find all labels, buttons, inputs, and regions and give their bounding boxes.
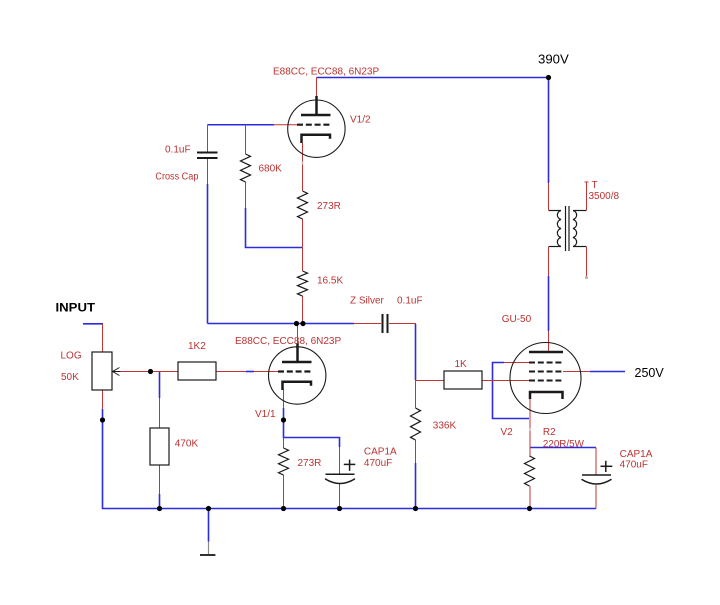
svg-text:0.1uF: 0.1uF [397, 296, 423, 307]
svg-text:1K2: 1K2 [188, 341, 206, 352]
svg-text:V1/1: V1/1 [255, 409, 276, 420]
svg-text:273R: 273R [298, 458, 322, 469]
svg-text:E88CC, ECC88, 6N23P: E88CC, ECC88, 6N23P [235, 336, 341, 347]
svg-text:R2: R2 [543, 427, 556, 438]
svg-text:V2: V2 [501, 427, 514, 438]
svg-text:470K: 470K [175, 439, 199, 450]
svg-text:CAP1A: CAP1A [364, 447, 397, 458]
svg-text:3500/8: 3500/8 [589, 191, 620, 202]
svg-text:390V: 390V [538, 53, 569, 67]
svg-text:GU-50: GU-50 [502, 314, 532, 325]
svg-text:Z Silver: Z Silver [350, 296, 385, 307]
svg-text:470uF: 470uF [364, 458, 392, 469]
svg-text:336K: 336K [433, 421, 457, 432]
svg-text:V1/2: V1/2 [350, 114, 371, 125]
svg-text:16.5K: 16.5K [317, 276, 343, 287]
svg-text:INPUT: INPUT [56, 301, 96, 315]
svg-text:1K: 1K [455, 359, 468, 370]
svg-text:0.1uF: 0.1uF [165, 145, 191, 156]
svg-text:220R/5W: 220R/5W [543, 439, 585, 450]
svg-text:T: T [592, 180, 598, 191]
svg-text:680K: 680K [259, 164, 283, 175]
svg-text:E88CC, ECC88, 6N23P: E88CC, ECC88, 6N23P [273, 67, 379, 78]
svg-text:50K: 50K [61, 372, 79, 383]
svg-text:LOG: LOG [61, 351, 82, 362]
svg-text:Cross Cap: Cross Cap [155, 172, 198, 183]
svg-text:CAP1A: CAP1A [620, 449, 653, 460]
svg-text:250V: 250V [635, 366, 665, 380]
svg-text:273R: 273R [317, 201, 341, 212]
svg-text:470uF: 470uF [620, 460, 648, 471]
